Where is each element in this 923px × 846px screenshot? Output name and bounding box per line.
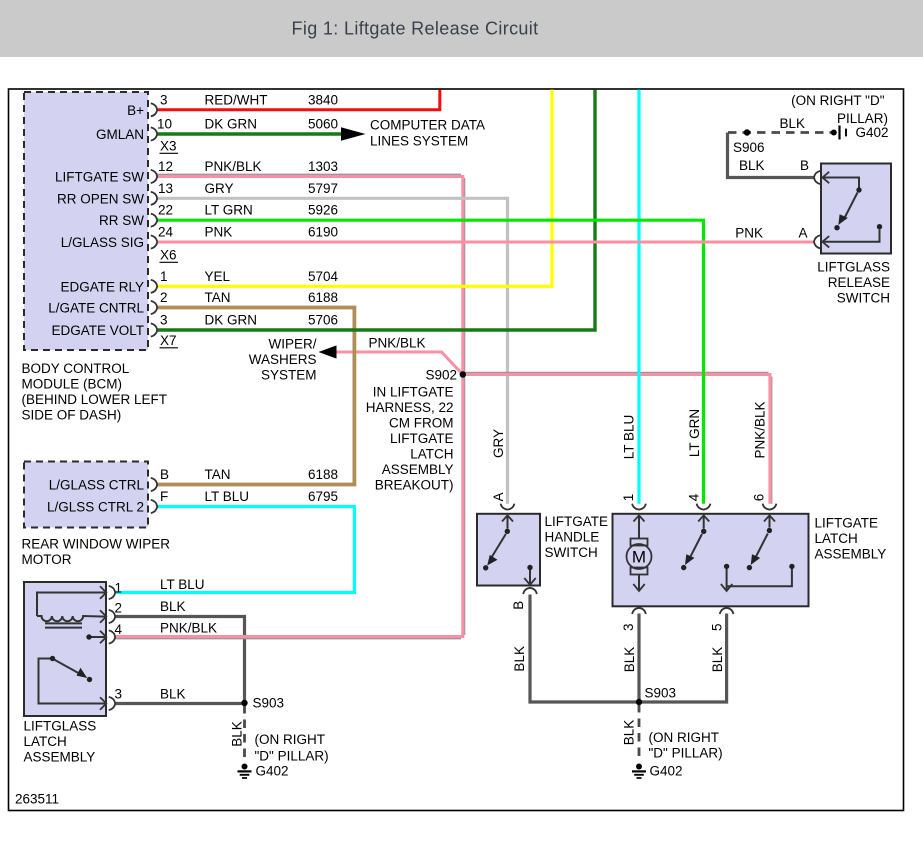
svg-text:MOTOR: MOTOR [22,552,72,567]
svg-text:RELEASE: RELEASE [828,275,890,290]
svg-text:BLK: BLK [512,646,527,672]
svg-text:LT BLU: LT BLU [160,577,205,592]
S902 note text [366,385,454,493]
svg-text:BLK: BLK [622,720,637,746]
svg-text:LIFTGLASS: LIFTGLASS [817,260,890,275]
svg-text:GRY: GRY [491,429,506,458]
wire DK GRN 5706 pin3 to top border [157,90,595,331]
svg-text:MODULE (BCM): MODULE (BCM) [22,377,123,392]
svg-text:S903: S903 [645,686,677,701]
svg-text:(ON RIGHT: (ON RIGHT [649,730,720,745]
wire PNK/BLK branch S902 to liftgate latch pin6 [463,375,770,504]
svg-text:1303: 1303 [308,159,338,174]
svg-text:A: A [799,226,808,241]
svg-text:BLK: BLK [780,116,806,131]
svg-text:PNK: PNK [735,226,763,241]
svg-text:LT GRN: LT GRN [687,409,702,457]
svg-text:1: 1 [160,269,168,284]
svg-text:HANDLE: HANDLE [545,530,600,545]
liftglass latch pin arcs 1 2 4 3 [109,586,115,710]
svg-text:EDGATE RLY: EDGATE RLY [60,279,144,294]
svg-text:YEL: YEL [205,269,231,284]
svg-text:BLK: BLK [160,687,186,702]
svg-text:G402: G402 [256,764,289,779]
wire LT GRN 5926 pin22 to liftgate latch pin4 [157,220,704,504]
svg-text:ASSEMBLY: ASSEMBLY [24,750,96,765]
title bar [0,0,923,57]
svg-text:DK GRN: DK GRN [205,313,258,328]
svg-text:LINES SYSTEM: LINES SYSTEM [370,134,468,149]
svg-text:LATCH: LATCH [410,447,453,462]
svg-text:SWITCH: SWITCH [837,291,890,306]
svg-text:LIFTGATE: LIFTGATE [815,516,879,531]
svg-text:"D" PILLAR): "D" PILLAR) [255,749,329,764]
wire PNK/BLK 1303 pin12 to S902 down to liftglass latch pin4 [115,177,463,637]
svg-text:SYSTEM: SYSTEM [261,368,317,383]
svg-text:6188: 6188 [308,290,338,305]
svg-text:5926: 5926 [308,203,338,218]
rear window wiper motor box [24,462,148,528]
svg-text:M: M [632,548,646,567]
handle switch pin arc A top [501,504,515,510]
wire LT BLU top border to liftgate latch pin1 [637,90,640,504]
latch motor M1 [627,515,652,591]
svg-text:B: B [800,158,809,173]
svg-text:S903: S903 [253,696,285,711]
svg-text:CM FROM: CM FROM [389,416,454,431]
wire BLK liftglass latch pin3 to splice S903 left [115,702,245,705]
svg-text:PNK/BLK: PNK/BLK [753,401,768,458]
svg-text:(ON RIGHT: (ON RIGHT [255,732,326,747]
wiper motor pin arcs B and F [151,478,157,513]
svg-text:2: 2 [160,290,168,305]
svg-text:TAN: TAN [205,467,231,482]
svg-text:LIFTGATE SW: LIFTGATE SW [55,170,144,185]
svg-text:L/GLASS SIG: L/GLASS SIG [61,235,144,250]
latch pin arcs 1 4 6 top [632,504,776,510]
svg-text:RR SW: RR SW [99,213,144,228]
svg-text:LT BLU: LT BLU [205,489,250,504]
wire DK GRN 5060 pin10 to computer data arrow [157,132,342,135]
liftglass latch contact dots and arrow [86,634,91,639]
latch switch pin6 [755,515,775,558]
svg-text:"D" PILLAR): "D" PILLAR) [649,746,723,761]
wiper washers arrow [319,345,337,358]
svg-text:PNK/BLK: PNK/BLK [369,336,426,351]
svg-text:S906: S906 [733,140,765,155]
wire PNK/BLK 1303 black stripe segments [157,173,461,175]
svg-text:IN LIFTGATE: IN LIFTGATE [373,385,454,400]
svg-text:WASHERS: WASHERS [249,352,317,367]
svg-text:5797: 5797 [308,181,338,196]
wire BLK dashed S903 mid to ground G402 mid [638,704,641,761]
splice S903 mid [636,699,642,705]
svg-text:WIPER/: WIPER/ [268,337,316,352]
svg-text:LIFTGATE: LIFTGATE [545,514,609,529]
svg-text:BLK: BLK [622,647,637,673]
svg-text:RED/WHT: RED/WHT [205,93,268,108]
liftgate latch assembly box [613,514,809,607]
wire BLK dashed S903 left to ground G402 left [243,705,246,762]
svg-text:PNK/BLK: PNK/BLK [160,621,217,636]
svg-text:RR OPEN SW: RR OPEN SW [57,191,144,206]
svg-text:2: 2 [115,601,123,616]
wire YEL 5704 pin1 to top border [157,90,552,287]
svg-text:BLK: BLK [710,647,725,673]
svg-text:BLK: BLK [229,721,244,747]
liftglass latch assembly box [24,582,106,716]
svg-text:LIFTGLASS: LIFTGLASS [24,719,97,734]
BCM pin name labels [48,103,144,338]
svg-text:6188: 6188 [308,467,338,482]
wire BLK handle switch pinB to splice S903 mid [530,595,639,703]
liftglass release switch box [821,164,891,254]
svg-text:B: B [160,467,169,482]
wire TAN 6188 pin2 to rear wiper motor pin B [157,308,354,485]
svg-text:S902: S902 [425,368,457,383]
svg-text:GRY: GRY [205,181,234,196]
svg-text:Fig 1: Liftgate Release Circui: Fig 1: Liftgate Release Circuit [292,19,539,39]
wire GRY 5797 pin13 to handle switch pin A [157,198,508,504]
svg-text:3: 3 [115,687,123,702]
svg-text:4: 4 [115,622,123,637]
svg-text:G402: G402 [856,125,889,140]
wire BLK dashed S906 to ground G402 right [728,131,831,134]
svg-text:G402: G402 [650,764,683,779]
svg-text:PNK/BLK: PNK/BLK [205,159,262,174]
svg-text:LT GRN: LT GRN [205,203,253,218]
svg-text:BODY CONTROL: BODY CONTROL [22,361,130,376]
wire PNK 6190 pin24 to release switch pin A [157,241,815,244]
svg-text:X6: X6 [160,248,177,263]
svg-text:B: B [511,601,526,610]
svg-text:ASSEMBLY: ASSEMBLY [382,462,454,477]
handle switch pin arc B bottom [523,588,537,594]
BCM box U1 body control module [24,92,148,350]
svg-text:3840: 3840 [308,93,338,108]
latch fixed contacts to pin5 [727,569,792,591]
svg-text:BLK: BLK [160,599,186,614]
wire PNK/BLK S902 to wiper/washers arrow [336,352,463,375]
svg-text:L/GLASS CTRL: L/GLASS CTRL [49,478,145,493]
wire PNK/BLK branch stripe [464,371,768,373]
svg-text:TAN: TAN [205,290,231,305]
svg-text:GMLAN: GMLAN [96,127,144,142]
splice S906 [744,129,750,135]
BCM pin arcs X3/X6/X7 connector terminals [151,103,157,336]
latch pin arcs 3 5 bottom [632,608,733,614]
computer data lines arrow [341,127,366,141]
svg-text:EDGATE VOLT: EDGATE VOLT [51,323,144,338]
svg-text:3: 3 [160,313,168,328]
svg-text:22: 22 [158,203,173,218]
ground G402 right symbol [831,130,837,136]
svg-text:BREAKOUT): BREAKOUT) [375,478,454,493]
liftglass latch internal chevrons [100,586,106,710]
svg-text:1: 1 [621,494,636,502]
wire BLK liftgate latch pin3 to splice S903 mid [637,614,640,703]
liftgate handle switch box [477,514,540,586]
wire RED/WHT 3840 pin3 to top border [157,90,440,110]
svg-text:24: 24 [158,225,174,240]
svg-text:ASSEMBLY: ASSEMBLY [815,547,887,562]
wire LT BLU 6795 wiper motor pinF to liftglass latch pin1 [115,507,354,593]
svg-text:LATCH: LATCH [24,734,67,749]
svg-text:F: F [160,489,168,504]
svg-text:PNK: PNK [205,225,233,240]
svg-text:L/GLSS CTRL 2: L/GLSS CTRL 2 [47,500,144,515]
handle switch internals [489,515,536,585]
svg-text:263511: 263511 [15,792,59,807]
svg-text:12: 12 [158,159,173,174]
svg-text:5: 5 [709,624,724,632]
splice S903 left [241,700,247,706]
svg-text:6190: 6190 [308,225,338,240]
svg-text:3: 3 [160,93,168,108]
svg-text:LATCH: LATCH [815,531,858,546]
svg-text:REAR WINDOW WIPER: REAR WINDOW WIPER [22,537,171,552]
svg-text:PILLAR): PILLAR) [837,111,888,126]
svg-text:(BEHIND LOWER LEFT: (BEHIND LOWER LEFT [22,392,168,407]
svg-text:SIDE OF DASH): SIDE OF DASH) [22,408,122,423]
svg-text:B+: B+ [127,103,144,118]
ground G402 mid symbol [636,764,642,770]
svg-text:3: 3 [621,624,636,632]
svg-text:5706: 5706 [308,313,338,328]
svg-text:X7: X7 [160,333,177,348]
svg-text:(ON RIGHT "D": (ON RIGHT "D" [791,93,885,108]
svg-text:4: 4 [687,493,702,501]
liftglass latch relay coil internals [37,593,106,704]
wire BLK liftglass latch pin2 to splice S903 left [115,617,245,704]
release switch internals [822,172,879,248]
svg-text:10: 10 [157,117,172,132]
release switch pin arcs B A left side [814,171,820,249]
wire BLK liftgate latch pin5 to splice S903 mid [639,614,727,703]
svg-text:SWITCH: SWITCH [545,545,598,560]
splice S902 [460,371,466,377]
svg-text:5704: 5704 [308,269,339,284]
svg-text:X3: X3 [160,139,177,154]
svg-text:BLK: BLK [739,158,765,173]
svg-text:L/GATE CNTRL: L/GATE CNTRL [48,301,144,316]
svg-text:13: 13 [158,181,173,196]
svg-text:6795: 6795 [308,489,338,504]
ground G402 left symbol [242,764,248,770]
wire BLK release switch pinB to corner [728,133,815,178]
svg-text:DK GRN: DK GRN [205,117,258,132]
svg-text:COMPUTER DATA: COMPUTER DATA [370,117,485,132]
svg-text:LIFTGATE: LIFTGATE [390,431,454,446]
svg-text:5060: 5060 [308,117,338,132]
svg-text:6: 6 [752,494,767,502]
svg-text:1: 1 [115,581,123,596]
svg-text:HARNESS, 22: HARNESS, 22 [366,400,454,415]
latch switch pin4 [690,515,710,558]
svg-text:A: A [491,492,506,501]
svg-text:LT BLU: LT BLU [621,415,636,460]
